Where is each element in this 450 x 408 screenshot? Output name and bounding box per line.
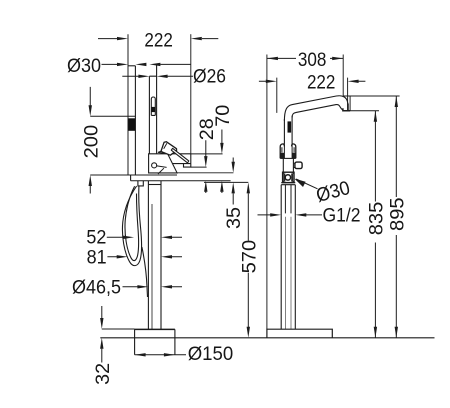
hand shower top cap xyxy=(128,65,135,67)
dim 81 leader xyxy=(107,256,182,258)
arm left cap xyxy=(130,175,132,181)
jaw dark lower fills xyxy=(281,153,285,158)
svg-text:222: 222 xyxy=(307,72,336,94)
svg-text:570: 570 xyxy=(238,240,260,274)
pivot corner fills xyxy=(283,172,294,182)
dim 28 stems xyxy=(205,140,207,193)
floor line xyxy=(100,337,434,339)
dim 70 stems xyxy=(221,130,223,194)
G1/2 arrows xyxy=(270,213,281,216)
diverter capsule xyxy=(151,97,155,115)
grip face line xyxy=(164,143,167,149)
dim 52 leader xyxy=(107,236,182,238)
spout outlet foot xyxy=(343,104,350,111)
svg-text:Ø26: Ø26 xyxy=(193,65,226,87)
28 arrows xyxy=(204,156,207,167)
dim Ø26 leader xyxy=(122,75,193,77)
dim G1/2 leaders xyxy=(258,214,323,216)
base plate right view xyxy=(267,329,332,338)
handle lever xyxy=(171,148,189,163)
dim 222 left view xyxy=(98,38,218,40)
ring line xyxy=(204,181,248,183)
mixer body xyxy=(149,154,178,173)
hose loop outer xyxy=(122,186,141,266)
spout top line xyxy=(168,153,191,155)
trim inner lines xyxy=(151,204,153,329)
dim 895 xyxy=(343,96,400,338)
dim Ø46,5 leader xyxy=(123,286,183,288)
222 right extension line xyxy=(190,34,192,154)
dim Ø30 right leader xyxy=(296,179,317,189)
pivot circle xyxy=(285,175,290,180)
trim tube right xyxy=(160,181,162,330)
base plate top xyxy=(135,328,175,330)
835 arrows xyxy=(374,111,377,122)
570 arrows xyxy=(247,182,250,193)
308 arrows xyxy=(267,57,278,60)
holder bottom line xyxy=(280,157,296,159)
spout bottom line xyxy=(173,163,191,165)
dim 308 xyxy=(267,57,343,59)
svg-text:G1/2: G1/2 xyxy=(323,205,361,227)
222 right view extension lines xyxy=(277,78,350,113)
dim 835 xyxy=(343,111,379,338)
capsule black band xyxy=(151,107,155,112)
arm top xyxy=(131,174,177,176)
neck xyxy=(283,158,293,172)
svg-text:895: 895 xyxy=(386,197,408,231)
70 arrows xyxy=(220,143,223,154)
52 arrows xyxy=(123,236,134,239)
895 arrows xyxy=(395,96,398,107)
dim Ø30 leader xyxy=(102,63,191,65)
svg-text:308: 308 xyxy=(298,49,327,71)
hose loop inner xyxy=(125,186,139,260)
Ø46,5 arrows xyxy=(137,285,148,288)
diverter rod dark xyxy=(288,121,292,132)
308 extension lines xyxy=(267,55,343,330)
svg-text:Ø150: Ø150 xyxy=(188,343,234,365)
dim Ø150 line xyxy=(135,354,186,356)
35 arrows xyxy=(232,162,235,173)
svg-text:35: 35 xyxy=(223,207,245,229)
riser tube Ø26 xyxy=(149,64,156,153)
holder sleeve xyxy=(280,144,284,159)
inner pipe xyxy=(285,185,291,214)
trim tube left xyxy=(147,181,149,330)
hand shower left side / 222 extension line xyxy=(127,34,129,175)
handle grip xyxy=(161,142,177,156)
svg-text:52: 52 xyxy=(86,227,106,249)
222L arrows xyxy=(117,37,128,40)
spout outer profile xyxy=(284,96,348,121)
hose connector xyxy=(138,181,143,186)
Ø30R arrow xyxy=(294,179,305,187)
dim 222 right view xyxy=(259,80,366,82)
pivot box xyxy=(283,172,294,182)
knob xyxy=(295,162,302,169)
svg-text:32: 32 xyxy=(92,363,114,385)
trim collar line xyxy=(148,184,161,186)
handle hub xyxy=(158,151,163,153)
linkage line b xyxy=(158,168,164,174)
svg-text:Ø46,5: Ø46,5 xyxy=(72,276,121,298)
Ø26 arrows xyxy=(138,75,149,78)
200 arrows xyxy=(89,105,92,116)
trim tube right view xyxy=(281,185,295,330)
222R arrows xyxy=(266,80,277,83)
dim 32 xyxy=(102,306,135,363)
base plate sides xyxy=(135,329,175,354)
svg-text:81: 81 xyxy=(87,247,107,269)
dim 570 stems xyxy=(247,193,249,327)
aerator xyxy=(184,164,191,168)
dim 200 xyxy=(90,87,135,194)
svg-text:70: 70 xyxy=(212,105,234,127)
spout end xyxy=(190,154,192,164)
svg-text:Ø30: Ø30 xyxy=(67,55,101,77)
arm bottom xyxy=(131,180,231,182)
dim 35 stems xyxy=(232,158,234,205)
holder jaw right xyxy=(292,144,296,159)
linkage line a xyxy=(156,166,166,168)
svg-text:200: 200 xyxy=(80,125,102,159)
81 arrows xyxy=(117,255,128,258)
jaw inner slits xyxy=(282,147,294,152)
spout inner profile xyxy=(292,105,343,118)
upper tube sides xyxy=(284,116,292,144)
body screw circle xyxy=(152,163,157,168)
Ø30 arrows xyxy=(117,63,128,66)
joint lines xyxy=(281,183,295,185)
tube through holder xyxy=(284,144,292,159)
hand shower black band xyxy=(128,118,135,131)
svg-text:835: 835 xyxy=(365,202,387,236)
hand shower right side xyxy=(134,66,136,175)
hose return to base xyxy=(142,247,148,297)
inner pipe lower faint xyxy=(285,217,291,329)
Ø150 arrows xyxy=(135,353,146,356)
svg-text:222: 222 xyxy=(144,30,173,52)
32 arrows xyxy=(100,318,103,329)
knob shaft xyxy=(293,163,295,167)
